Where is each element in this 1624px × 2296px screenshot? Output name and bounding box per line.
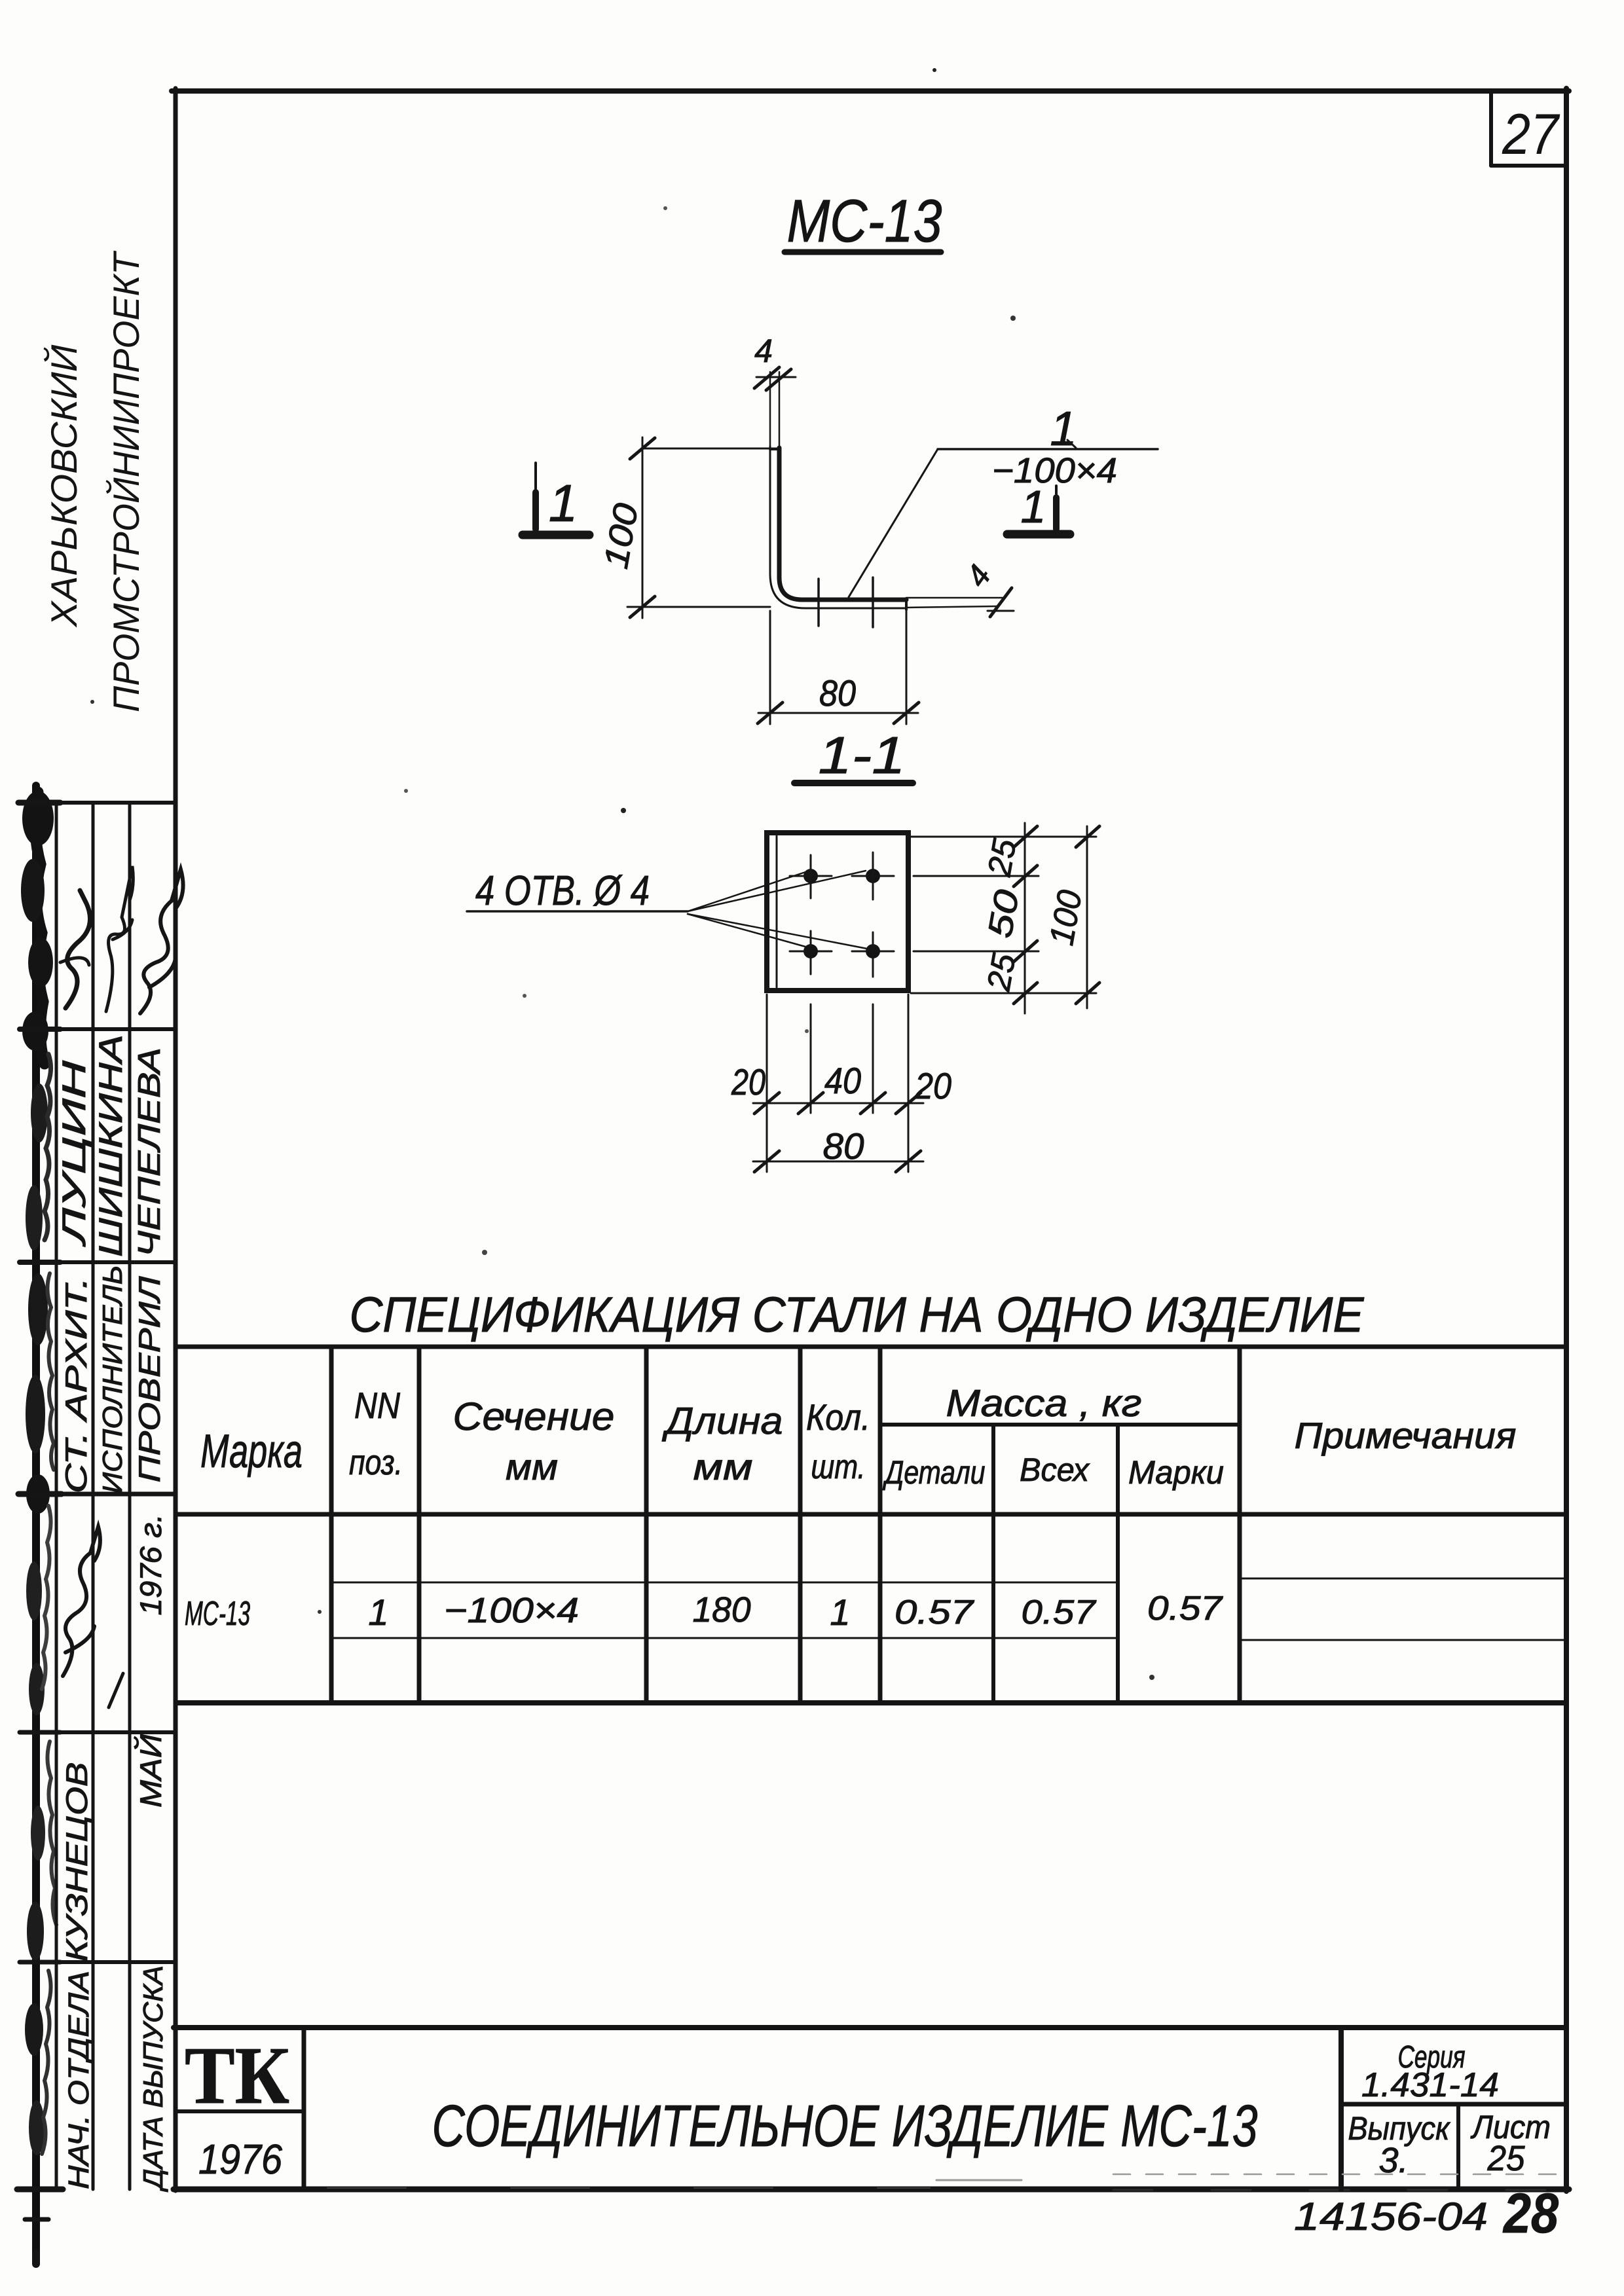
svg-text:ХАРЬКОВСКИЙ: ХАРЬКОВСКИЙ: [43, 344, 84, 629]
svg-text:СПЕЦИФИКАЦИЯ СТАЛИ НА ОДНО ИЗД: СПЕЦИФИКАЦИЯ СТАЛИ НА ОДНО ИЗДЕЛИЕ: [350, 1287, 1365, 1343]
svg-text:50: 50: [981, 887, 1027, 941]
svg-text:1-1: 1-1: [819, 726, 906, 784]
svg-text:40: 40: [824, 1060, 861, 1101]
svg-text:ЛУЦИН: ЛУЦИН: [56, 1060, 92, 1247]
svg-text:1: 1: [1050, 401, 1077, 456]
svg-text:180: 180: [693, 1590, 751, 1630]
svg-text:4: 4: [754, 333, 773, 369]
svg-text:ИСПОЛНИТЕЛЬ: ИСПОЛНИТЕЛЬ: [97, 1266, 128, 1494]
svg-text:1: 1: [1021, 481, 1046, 532]
svg-text:0.57: 0.57: [1022, 1594, 1097, 1631]
svg-text:28: 28: [1502, 2182, 1559, 2245]
svg-text:Длина: Длина: [661, 1400, 783, 1442]
svg-text:25: 25: [980, 836, 1023, 879]
svg-text:Примечания: Примечания: [1295, 1415, 1517, 1456]
svg-text:Всех: Всех: [1020, 1451, 1090, 1488]
svg-text:ЧЕПЕЛЕВА: ЧЕПЕЛЕВА: [132, 1048, 167, 1257]
svg-text:1976 г.: 1976 г.: [134, 1514, 168, 1616]
svg-text:100: 100: [597, 500, 646, 572]
svg-text:Марка: Марка: [200, 1425, 303, 1478]
svg-text:КУЗНЕЦОВ: КУЗНЕЦОВ: [60, 1762, 94, 1962]
svg-text:Детали: Детали: [882, 1454, 985, 1491]
svg-text:МС-13: МС-13: [787, 188, 942, 255]
svg-text:ПРОВЕРИЛ: ПРОВЕРИЛ: [132, 1276, 166, 1483]
svg-text:20: 20: [731, 1061, 766, 1102]
svg-text:3.: 3.: [1378, 2141, 1408, 2180]
svg-text:1: 1: [549, 474, 578, 532]
svg-text:0.57: 0.57: [895, 1594, 974, 1631]
svg-text:Марки: Марки: [1128, 1454, 1224, 1491]
svg-text:4 ОТВ. Ø 4: 4 ОТВ. Ø 4: [475, 867, 650, 914]
svg-text:мм: мм: [506, 1446, 558, 1487]
svg-text:Сечение: Сечение: [453, 1394, 615, 1438]
svg-text:мм: мм: [693, 1446, 753, 1487]
svg-text:0.57: 0.57: [1147, 1590, 1223, 1628]
svg-text:−100×4: −100×4: [992, 451, 1117, 490]
svg-text:NN: NN: [354, 1385, 400, 1426]
svg-text:1: 1: [368, 1592, 388, 1633]
svg-text:ДАТА ВЫПУСКА: ДАТА ВЫПУСКА: [138, 1965, 168, 2192]
svg-text:20: 20: [914, 1065, 951, 1106]
svg-text:80: 80: [823, 1125, 864, 1167]
svg-text:4: 4: [959, 559, 998, 593]
svg-text:1.431-14: 1.431-14: [1361, 2066, 1499, 2104]
svg-text:ТК: ТК: [185, 2031, 289, 2121]
svg-text:Масса , кг: Масса , кг: [946, 1382, 1142, 1425]
svg-text:Кол.: Кол.: [806, 1396, 870, 1438]
svg-text:ПРОМСТРОЙНИИПРОЕКТ: ПРОМСТРОЙНИИПРОЕКТ: [105, 250, 147, 712]
svg-text:МАЙ: МАЙ: [134, 1734, 168, 1808]
svg-text:ШИШКИНА: ШИШКИНА: [92, 1034, 129, 1257]
svg-text:СТ. АРХИТ.: СТ. АРХИТ.: [59, 1277, 93, 1493]
svg-text:1976: 1976: [198, 2136, 282, 2183]
svg-text:14156-04: 14156-04: [1294, 2195, 1488, 2238]
svg-text:25: 25: [980, 951, 1022, 994]
svg-text:100: 100: [1043, 887, 1090, 948]
svg-text:−100×4: −100×4: [444, 1591, 579, 1630]
svg-text:27: 27: [1502, 101, 1560, 166]
svg-text:СОЕДИНИТЕЛЬНОЕ ИЗДЕЛИЕ МС-13: СОЕДИНИТЕЛЬНОЕ ИЗДЕЛИЕ МС-13: [432, 2094, 1258, 2159]
svg-text:25: 25: [1487, 2139, 1526, 2178]
svg-text:1: 1: [830, 1592, 850, 1633]
svg-text:поз.: поз.: [349, 1443, 403, 1482]
svg-text:НАЧ. ОТДЕЛА: НАЧ. ОТДЕЛА: [63, 1971, 95, 2189]
svg-text:МС-13: МС-13: [185, 1595, 250, 1633]
svg-text:шт.: шт.: [811, 1448, 866, 1486]
svg-text:80: 80: [819, 672, 856, 714]
